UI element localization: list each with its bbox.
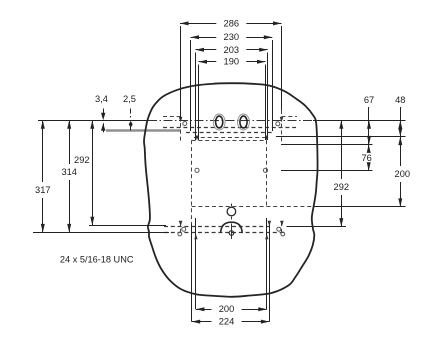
svg-text:24 x 5/16-18 UNC: 24 x 5/16-18 UNC [60,254,134,264]
svg-text:203: 203 [224,45,240,55]
svg-text:314: 314 [61,167,77,177]
svg-text:3,4: 3,4 [95,94,108,104]
svg-text:230: 230 [224,32,240,42]
svg-text:317: 317 [35,185,51,195]
svg-text:200: 200 [395,169,411,179]
svg-text:224: 224 [219,317,235,327]
svg-text:292: 292 [74,155,90,165]
svg-text:67: 67 [364,95,374,105]
svg-text:200: 200 [219,304,235,314]
svg-text:292: 292 [334,182,350,192]
svg-text:286: 286 [224,18,240,28]
svg-text:76: 76 [362,153,372,163]
svg-text:48: 48 [395,95,405,105]
svg-text:2,5: 2,5 [123,94,136,104]
svg-text:190: 190 [224,57,240,67]
